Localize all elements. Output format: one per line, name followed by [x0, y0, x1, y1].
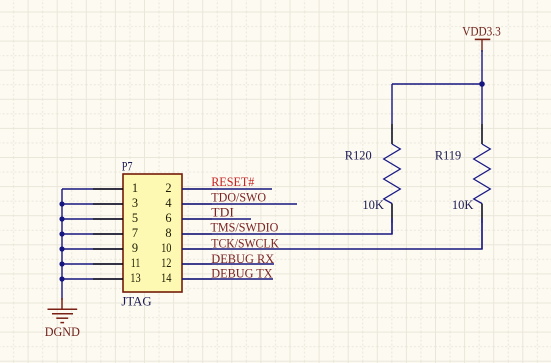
wire pin3 to bus: [62, 203, 123, 205]
svg-text:10: 10: [161, 241, 171, 255]
svg-text:13: 13: [130, 271, 140, 285]
wire TDO/SWO net: [182, 203, 297, 205]
svg-text:9: 9: [132, 241, 138, 255]
wire pin7 to bus: [62, 233, 123, 235]
wire pin13 to bus: [62, 278, 123, 280]
resistor R120: [384, 84, 401, 234]
pin 8: [165, 226, 212, 240]
pin 1: [93, 181, 138, 195]
junction at pin3: [59, 201, 64, 206]
wire DEBUG TX net: [182, 278, 273, 280]
pin 6: [165, 211, 212, 225]
junction at pin5: [59, 216, 64, 221]
svg-text:7: 7: [132, 226, 138, 240]
svg-text:8: 8: [165, 226, 171, 240]
pin 11: [93, 256, 140, 270]
wire TMS/SWDIO net to R120: [182, 204, 392, 235]
svg-text:10K: 10K: [452, 198, 474, 212]
svg-text:RESET#: RESET#: [211, 175, 255, 189]
svg-text:R120: R120: [345, 149, 372, 163]
pin 5: [93, 211, 138, 225]
pin 12: [161, 256, 212, 270]
pin 7: [93, 226, 138, 240]
junction at pin11: [59, 261, 64, 266]
wire left bus vertical: [61, 189, 63, 300]
svg-text:DGND: DGND: [45, 325, 80, 339]
svg-text:1: 1: [132, 181, 138, 195]
svg-text:4: 4: [165, 196, 171, 210]
svg-text:12: 12: [161, 256, 171, 270]
svg-text:R119: R119: [435, 149, 461, 163]
pin 4: [165, 196, 212, 210]
wire DEBUG RX net: [182, 263, 274, 265]
svg-text:14: 14: [161, 271, 172, 285]
svg-text:P7: P7: [122, 159, 133, 173]
ground DGND power port: [48, 298, 78, 323]
wire RESET# net: [182, 188, 272, 190]
junction at pin9: [59, 246, 64, 251]
svg-text:JTAG: JTAG: [121, 294, 151, 308]
svg-text:TDO/SWO: TDO/SWO: [211, 190, 266, 204]
junction VDD rail: [479, 81, 485, 87]
svg-text:VDD3.3: VDD3.3: [462, 25, 501, 39]
svg-text:TMS/SWDIO: TMS/SWDIO: [211, 221, 279, 235]
svg-text:11: 11: [131, 256, 141, 270]
wire TCK/SWCLK net to R119: [182, 204, 482, 250]
wire pin11 to bus: [62, 263, 123, 265]
pin 2: [165, 181, 212, 195]
svg-text:TDI: TDI: [211, 206, 234, 220]
svg-text:2: 2: [165, 181, 171, 195]
svg-text:5: 5: [132, 211, 138, 225]
svg-text:3: 3: [132, 196, 138, 210]
pin 13: [93, 271, 141, 285]
svg-text:TCK/SWCLK: TCK/SWCLK: [211, 237, 279, 251]
pin 14: [161, 271, 212, 285]
pin 10: [161, 241, 212, 255]
wire pin9 to bus: [62, 248, 123, 250]
connector P7 body: [123, 174, 182, 292]
svg-text:DEBUG RX: DEBUG RX: [211, 252, 274, 266]
wire TDI net: [182, 218, 251, 220]
junction at pin13: [59, 276, 64, 281]
pin 9: [93, 241, 138, 255]
pin 3: [93, 196, 138, 210]
wire VDD rail horizontal: [392, 83, 482, 85]
resistor R119: [474, 84, 491, 249]
svg-text:DEBUG TX: DEBUG TX: [211, 267, 272, 281]
wire VDD3.3 stem: [481, 50, 483, 84]
svg-text:6: 6: [165, 211, 171, 225]
wire pin1 to bus: [62, 188, 123, 190]
junction at pin7: [59, 231, 64, 236]
power port VDD3.3: [475, 39, 491, 52]
svg-text:10K: 10K: [362, 198, 384, 212]
wire pin5 to bus: [62, 218, 123, 220]
